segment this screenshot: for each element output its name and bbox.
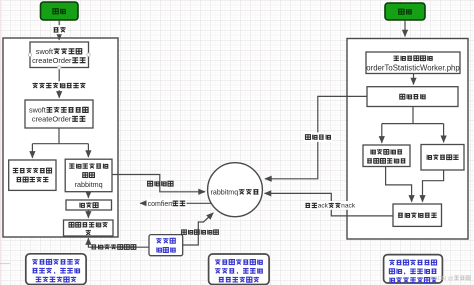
svg-text:ack: ack [318, 203, 329, 210]
svg-text:swoft: swoft [29, 105, 46, 114]
svg-text:nack: nack [341, 203, 356, 210]
svg-text:CSDN @: CSDN @ [430, 276, 454, 282]
svg-text:rabbitmq: rabbitmq [75, 180, 103, 189]
svg-text:swoft: swoft [36, 47, 53, 56]
svg-text:comfiem: comfiem [148, 201, 175, 208]
svg-text:orderToStatisticWorker.php: orderToStatisticWorker.php [366, 64, 460, 73]
svg-text:rabbitmq: rabbitmq [211, 188, 239, 196]
svg-text:createOrder: createOrder [32, 56, 72, 65]
svg-text:createOrder: createOrder [32, 114, 72, 123]
